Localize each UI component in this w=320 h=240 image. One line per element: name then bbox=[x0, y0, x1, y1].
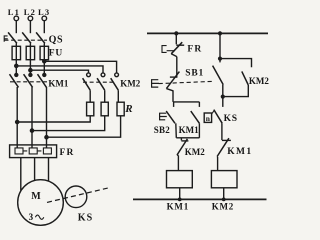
wire rail to FR contact bbox=[175, 33, 177, 44]
wire join bus to KM2 interlock bbox=[180, 138, 182, 141]
node rail right branch bbox=[219, 32, 222, 35]
contactor KM1 pole1 blade bbox=[10, 74, 19, 87]
wire FR to motor v bbox=[34, 158, 36, 181]
wire KM2 interlock to coil KM1 bbox=[177, 155, 179, 170]
contact KM2 aux branch top wire bbox=[220, 59, 252, 68]
resistor R2 bbox=[101, 102, 108, 116]
wire R2 back to phase B bbox=[32, 116, 105, 131]
svg-text:KM1: KM1 bbox=[179, 125, 199, 135]
resistor R3 bbox=[117, 102, 124, 116]
wire phase A down to KM1 bbox=[15, 60, 17, 75]
svg-text:KS: KS bbox=[78, 212, 93, 223]
svg-text:QS: QS bbox=[49, 34, 64, 45]
contact KM1 interlock blade bbox=[217, 138, 229, 156]
contactor KM1 pole3 terminal bbox=[43, 73, 46, 76]
svg-text:KM2: KM2 bbox=[185, 147, 205, 157]
speed relay KS circle bbox=[65, 186, 87, 208]
node R2 join bbox=[30, 129, 33, 132]
wire coil KM2 to bottom rail bbox=[223, 188, 225, 200]
node KM2 aux branch bbox=[219, 57, 222, 60]
wire phase B down to KM1 bbox=[29, 60, 31, 75]
contactor KM2 link line bbox=[83, 81, 116, 83]
wire branch phase A to KM2 pole2 bbox=[16, 66, 103, 73]
wire SB1 linked to KS bbox=[222, 85, 224, 107]
wire R3 back to phase C bbox=[47, 116, 121, 137]
button SB1 linked blade bbox=[213, 66, 224, 85]
wire SB2 to join bus bbox=[175, 123, 178, 138]
contactor KM2 pole3 blade bbox=[111, 78, 119, 90]
wire KM1 interlock to coil KM2 bbox=[217, 157, 219, 171]
top rail bbox=[147, 32, 268, 34]
tilde mark bbox=[35, 215, 43, 219]
switch QS pole 2 blade bbox=[22, 32, 31, 43]
contactor KM1 link line bbox=[10, 81, 47, 83]
wire QS to FU pole1 bbox=[15, 43, 17, 46]
wire KM1 aux to join bus bbox=[198, 123, 200, 138]
svg-text:KM1: KM1 bbox=[167, 202, 189, 212]
button SB1 link dashes bbox=[159, 81, 212, 83]
wire FR contact to SB1 bbox=[176, 57, 178, 77]
switch QS link line bbox=[5, 39, 48, 41]
button SB1 blade tail bbox=[166, 89, 173, 91]
contactor KM2 pole3 terminal bbox=[115, 73, 119, 77]
thermal relay FR element 3 bbox=[43, 148, 51, 154]
wire FR to motor w bbox=[48, 158, 50, 182]
terminal L2 bbox=[28, 16, 33, 21]
wire QS to FU pole2 bbox=[29, 43, 31, 46]
button SB1 crossbar bbox=[170, 76, 178, 78]
contactor KM2 pole1 blade bbox=[83, 78, 91, 90]
svg-text:SB1: SB1 bbox=[185, 68, 204, 78]
wire KM2 pole1 to R1 bbox=[89, 90, 91, 102]
node phase B branch bbox=[29, 69, 32, 72]
svg-text:R: R bbox=[124, 103, 132, 115]
contactor KM2 pole2 blade bbox=[97, 78, 105, 90]
switch QS handle bbox=[4, 36, 8, 42]
wire QS to FU pole3 bbox=[43, 43, 45, 46]
fuse FU2 bbox=[26, 46, 34, 59]
node rail left branch bbox=[175, 32, 178, 35]
wire KM2 pole3 to R3 bbox=[117, 90, 119, 102]
svg-text:KM2: KM2 bbox=[249, 76, 269, 86]
wire R1 back to phase A bbox=[17, 116, 90, 122]
terminal L1 bbox=[14, 16, 19, 21]
node coil KM2 to rail bbox=[223, 198, 225, 200]
wire L1 to QS bbox=[15, 21, 17, 33]
bottom rail bbox=[133, 198, 267, 200]
node phase A branch bbox=[15, 64, 18, 67]
wire phase A KM1 to FR bbox=[16, 87, 18, 148]
svg-text:KM2: KM2 bbox=[120, 79, 140, 89]
wire KS to KM1 interlock bbox=[221, 123, 223, 140]
contact KM2 aux blade bbox=[242, 71, 249, 85]
contactor KM1 pole1 terminal bbox=[15, 73, 18, 76]
node coil KM1 to rail bbox=[179, 198, 181, 200]
wire rail to SB1 linked contact bbox=[219, 33, 221, 62]
speed contact n box bbox=[204, 113, 211, 122]
resistor R1 bbox=[87, 102, 94, 116]
svg-text:FR: FR bbox=[60, 148, 75, 158]
split bus wire bbox=[173, 101, 199, 103]
coil KM2 bbox=[211, 171, 237, 188]
relay contact FR blade bbox=[171, 42, 182, 54]
wire coil KM1 to bottom rail bbox=[179, 188, 181, 200]
fuse FU1 bbox=[12, 46, 20, 59]
svg-text:M: M bbox=[31, 191, 41, 202]
wire branch phase B to KM2 pole1 bbox=[30, 70, 88, 73]
contact KM2 interlock tail bbox=[177, 154, 178, 156]
button SB2 blade bbox=[166, 111, 175, 123]
wire L2 to QS bbox=[29, 21, 31, 33]
contact KM1 interlock crossbar bbox=[222, 139, 231, 141]
svg-text:KM1: KM1 bbox=[48, 78, 68, 88]
wire split to SB2 bbox=[173, 102, 175, 107]
fuse FU3 bbox=[40, 46, 48, 59]
relay FR actuator rod bbox=[167, 50, 175, 52]
wire phase B KM1 to FR bbox=[31, 87, 33, 148]
relay contact FR blade tail bbox=[171, 54, 177, 57]
svg-text:KM1: KM1 bbox=[227, 147, 252, 157]
thermal relay FR box bbox=[10, 145, 57, 158]
node phase C branch bbox=[43, 60, 46, 63]
wire L3 to QS bbox=[43, 21, 45, 33]
wire phase C down to KM1 bbox=[43, 60, 45, 75]
contact KM2 interlock blade bbox=[177, 139, 187, 155]
svg-text:FU: FU bbox=[49, 48, 63, 58]
motor M circle bbox=[18, 180, 64, 226]
node R1 join bbox=[16, 120, 19, 123]
svg-text:KS: KS bbox=[224, 114, 238, 124]
coil KM1 bbox=[167, 171, 193, 188]
wire phase C KM1 to FR bbox=[46, 87, 48, 148]
join bus wire bbox=[176, 137, 199, 139]
node KM2 aux rejoin bbox=[221, 95, 224, 98]
svg-text:3: 3 bbox=[29, 212, 34, 222]
svg-text:FR: FR bbox=[187, 44, 202, 54]
contact KM2 aux lower wire bbox=[223, 85, 249, 97]
relay contact FR crossbar bbox=[176, 44, 184, 46]
button SB1 blade bbox=[166, 72, 179, 89]
thermal relay FR element 2 bbox=[29, 148, 41, 154]
switch QS pole 1 blade bbox=[8, 32, 17, 43]
switch QS pole 3 blade bbox=[36, 32, 45, 43]
contactor KM2 pole1 terminal bbox=[87, 73, 91, 77]
contact KM1 interlock tail bbox=[216, 155, 218, 158]
contactor KM1 pole3 blade bbox=[38, 74, 47, 87]
button SB2 cap bbox=[160, 113, 167, 120]
contact KS blade bbox=[214, 110, 222, 124]
wire split to KM1 aux bbox=[198, 102, 200, 107]
node R3 join bbox=[45, 136, 48, 139]
wire FR to motor u bbox=[20, 158, 22, 191]
contactor KM2 pole2 terminal bbox=[101, 73, 105, 77]
contactor KM1 pole2 blade bbox=[24, 74, 33, 87]
svg-text:KM2: KM2 bbox=[212, 202, 234, 212]
button SB1 cap bbox=[152, 80, 159, 87]
wire SB1 to split node bbox=[172, 90, 174, 102]
relay FR actuator bracket bbox=[162, 46, 167, 53]
contactor KM1 pole2 terminal bbox=[29, 73, 32, 76]
svg-text:SB2: SB2 bbox=[154, 125, 171, 135]
contact KM2 interlock crossbar bbox=[181, 140, 188, 142]
svg-text:L1: L1 bbox=[8, 7, 20, 17]
thermal relay FR element 1 bbox=[15, 148, 27, 154]
wire KM2 pole2 to R2 bbox=[104, 90, 106, 102]
wire branch phase C to KM2 pole3 bbox=[44, 61, 116, 73]
terminal L3 bbox=[42, 16, 47, 21]
contact KM1 aux blade bbox=[191, 111, 200, 123]
speed relay shaft dashed link bbox=[47, 187, 111, 202]
